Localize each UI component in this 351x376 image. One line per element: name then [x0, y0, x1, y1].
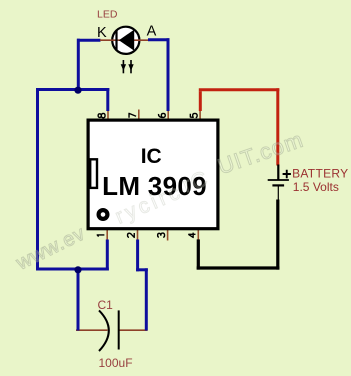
svg-text:A: A: [147, 24, 157, 40]
svg-text:C1: C1: [98, 298, 114, 312]
svg-text:1.5 Volts: 1.5 Volts: [293, 180, 339, 194]
svg-text:IC: IC: [141, 145, 162, 168]
svg-text:LED: LED: [97, 9, 118, 21]
svg-text:BATTERY: BATTERY: [292, 167, 348, 181]
svg-text:K: K: [97, 25, 107, 41]
svg-text:100uF: 100uF: [99, 356, 133, 370]
